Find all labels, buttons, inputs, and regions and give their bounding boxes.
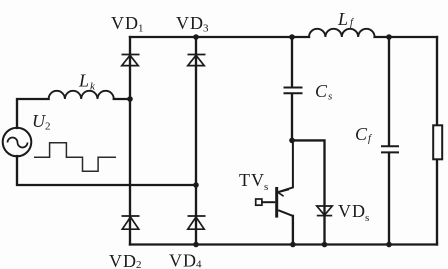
svg-text:VD: VD <box>176 13 204 33</box>
svg-text:VD: VD <box>169 251 197 269</box>
svg-text:L: L <box>78 71 89 91</box>
svg-text:VD: VD <box>109 251 137 269</box>
svg-text:L: L <box>337 9 348 29</box>
svg-text:VD: VD <box>111 13 139 33</box>
svg-text:C: C <box>315 81 328 101</box>
svg-text:3: 3 <box>203 23 209 35</box>
svg-text:VD: VD <box>338 201 366 221</box>
svg-text:2: 2 <box>136 259 142 269</box>
svg-text:U: U <box>32 111 46 131</box>
svg-text:s: s <box>264 181 268 193</box>
svg-text:C: C <box>355 124 368 144</box>
svg-text:1: 1 <box>138 23 144 35</box>
svg-text:4: 4 <box>196 259 202 269</box>
svg-text:s: s <box>365 212 369 224</box>
svg-text:TV: TV <box>239 170 265 190</box>
svg-text:2: 2 <box>45 121 51 133</box>
svg-text:s: s <box>328 91 332 103</box>
